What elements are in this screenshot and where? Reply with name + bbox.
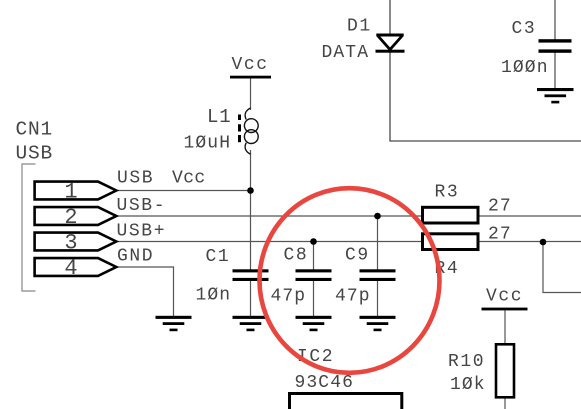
svg-text:USB+: USB+ [117, 222, 167, 242]
diode D1 [376, 35, 405, 53]
net label GND [117, 247, 154, 267]
svg-text:USB: USB [16, 143, 54, 165]
label USB [16, 143, 54, 165]
ground (pin4 / CN1) [156, 316, 192, 331]
label R10 [448, 352, 485, 372]
annotation red circle [260, 188, 440, 373]
svg-text:C1: C1 [206, 247, 231, 267]
wire Vcc vertical through L1 to C1 [250, 79, 252, 317]
wire USB+ (pin3 to R4) [116, 241, 422, 243]
wire GND (pin4 to ground) [116, 267, 174, 317]
value 27 (R4) [488, 225, 512, 245]
node dot USB Vcc [247, 187, 254, 194]
value 93C46 [295, 373, 355, 393]
pin 1 flag [35, 182, 117, 200]
wire USB Vcc (pin1 to node) [116, 190, 251, 192]
svg-text:Vcc: Vcc [232, 55, 269, 75]
svg-text:47p: 47p [335, 287, 371, 307]
label C3 [512, 19, 537, 39]
svg-text:27: 27 [488, 197, 512, 217]
svg-text:R3: R3 [435, 183, 460, 203]
bracket CN1 [22, 164, 36, 291]
label D1 [347, 17, 372, 37]
value 27 (R3) [488, 197, 512, 217]
svg-text:C3: C3 [512, 19, 537, 39]
svg-text:C9: C9 [345, 246, 370, 266]
svg-text:2: 2 [64, 205, 78, 230]
pin 3 flag [35, 233, 117, 251]
capacitor C1 [233, 269, 269, 281]
ground (C1) [233, 316, 269, 331]
pin 3 number [64, 231, 78, 256]
svg-text:C8: C8 [284, 246, 309, 266]
value 10k [450, 375, 486, 395]
resistor R10 [496, 344, 514, 397]
label R3 [435, 183, 460, 203]
value 47p (C8) [271, 287, 307, 307]
value 10uH [184, 133, 232, 153]
svg-text:L1: L1 [207, 106, 231, 128]
net label USB+ [117, 222, 167, 242]
svg-text:93C46: 93C46 [295, 373, 355, 393]
ground (C9) [360, 316, 396, 331]
value 10n [196, 285, 232, 305]
label L1 [207, 106, 231, 128]
ground (C3) [537, 88, 574, 103]
pin 4 flag [35, 258, 117, 276]
pin 1 number [64, 180, 78, 205]
wire USB+ (R4 to right edge) [479, 241, 581, 243]
resistor R4 [423, 234, 479, 250]
pin 2 number [64, 205, 78, 230]
svg-text:USB-: USB- [117, 196, 167, 216]
svg-text:1ØØn: 1ØØn [501, 58, 549, 78]
net label USB Vcc [117, 169, 206, 189]
value DATA [322, 43, 370, 63]
resistor R3 [423, 207, 479, 223]
power symbol Vcc (right) [482, 287, 528, 311]
pin 4 number [64, 256, 78, 281]
wire Vcc to R10 [504, 310, 506, 409]
node dot right net [540, 239, 547, 246]
label C9 [345, 246, 370, 266]
wire node to lower right [543, 242, 581, 293]
svg-text:1ØuH: 1ØuH [184, 133, 232, 153]
wire C3 vertical [554, 0, 556, 89]
value 47p (C9) [335, 287, 371, 307]
label R4 [435, 259, 460, 279]
svg-text:DATA: DATA [322, 43, 370, 63]
svg-text:4: 4 [64, 256, 78, 281]
svg-text:D1: D1 [347, 17, 372, 37]
wire USB- (pin2 to R3) [116, 215, 422, 217]
svg-text:47p: 47p [271, 287, 307, 307]
capacitor C3 [539, 39, 572, 53]
svg-text:USB: USB [117, 169, 154, 189]
svg-text:3: 3 [64, 231, 78, 256]
inductor L1 [238, 108, 258, 154]
node dot C9 on USB- [374, 213, 381, 220]
svg-text:1Øk: 1Øk [450, 375, 486, 395]
svg-text:1: 1 [64, 180, 78, 205]
svg-text:GND: GND [117, 247, 154, 267]
label C8 [284, 246, 309, 266]
net label USB- [117, 196, 167, 216]
power symbol Vcc (top) [230, 55, 271, 78]
pin 2 flag [35, 207, 117, 225]
svg-text:CN1: CN1 [16, 119, 54, 141]
capacitor C9 [360, 269, 396, 281]
label C1 [206, 247, 231, 267]
svg-text:27: 27 [488, 225, 512, 245]
svg-text:Vcc: Vcc [486, 287, 523, 307]
label CN1 [16, 119, 54, 141]
svg-text:1Øn: 1Øn [196, 285, 232, 305]
svg-text:R10: R10 [448, 352, 485, 372]
ground (C8) [296, 316, 332, 331]
wire C8 vertical [313, 242, 315, 317]
wire D1 net (top edge down, corner right to edge) [390, 0, 581, 141]
svg-text:Vcc: Vcc [172, 169, 206, 189]
node dot C8 on USB+ [310, 238, 317, 245]
label IC2 [297, 347, 334, 367]
capacitor C8 [296, 269, 332, 281]
value 100n [501, 58, 549, 78]
wire C9 vertical [377, 216, 379, 317]
IC2 box [290, 394, 402, 409]
wire USB- (R3 to right edge) [479, 215, 581, 217]
